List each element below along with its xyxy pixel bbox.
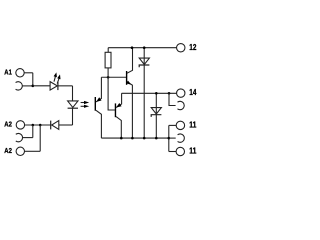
wire fan to 11a — [169, 124, 176, 126]
terminal A1 clamp — [16, 82, 23, 90]
node junction dot A2b riser — [39, 124, 42, 127]
resistor R1 — [105, 52, 111, 68]
wire down to 14 clamp — [169, 93, 176, 105]
svg-text:14: 14 — [189, 88, 197, 97]
terminal A1 circle — [16, 69, 24, 77]
transistor T2 base bar — [126, 71, 128, 85]
wire fan vertical — [168, 125, 170, 151]
transistor T1 lower lead — [116, 117, 121, 139]
terminal 12 circle — [177, 44, 185, 52]
wire LED1 to corner — [58, 85, 73, 87]
wire corner down to opto LED — [72, 86, 74, 101]
wire A1 clamp to node — [22, 85, 33, 87]
wire resistor down to T1 base — [108, 68, 115, 110]
LED1 emission arrow 2 — [57, 78, 59, 84]
optocoupler light arrow 2 — [81, 105, 85, 107]
node dot resistor/base wire — [107, 76, 110, 79]
wire node to LED1 — [33, 85, 50, 87]
node dot rail/fan junction — [168, 137, 171, 140]
transistor T1 upper lead (arrow into bar) — [116, 93, 122, 107]
phototransistor Q1 base bar — [94, 97, 96, 111]
wire D1 to A2 — [25, 124, 51, 126]
svg-text:A1: A1 — [4, 68, 12, 77]
opto LED D2 — [68, 101, 78, 108]
top rail wire — [108, 47, 176, 49]
svg-text:A2: A2 — [4, 146, 12, 155]
node dot Z2 on rail — [155, 137, 158, 140]
LED1 emission arrow 1 — [54, 76, 56, 82]
node dot Z1 on rail — [143, 137, 146, 140]
svg-text:11: 11 — [189, 120, 197, 129]
wire corner down to A1 node — [32, 73, 34, 86]
node dot Z2 top — [155, 92, 158, 95]
wire A2 clamp right — [23, 137, 33, 139]
node A1 junction dot — [32, 85, 35, 88]
node dot 14 clamp branch — [168, 92, 171, 95]
node dot T2 collector on rail — [131, 46, 134, 49]
terminal 14 clamp — [177, 101, 184, 109]
wire A2b riser up — [39, 125, 41, 151]
node dot Z1 on rail — [143, 46, 146, 49]
zener diode Z1 vertical line — [143, 48, 145, 138]
node dot T2 emitter on rail — [131, 137, 134, 140]
terminal A2 clamp — [16, 133, 23, 141]
terminal A2b circle — [16, 147, 24, 155]
phototransistor upper lead (emitter, arrow into bar) — [96, 77, 101, 102]
transistor T2 collector — [127, 48, 133, 74]
node dot T1 emitter on rail — [120, 137, 123, 140]
diode D1 (reverse protection, pointing left) — [52, 121, 59, 130]
wire fan to 11 clamp — [169, 137, 176, 139]
wire opto LED down — [72, 108, 74, 125]
wire fan to 11b — [169, 151, 176, 153]
bottom rail wire (terminal 11 row) — [101, 137, 168, 139]
wire rail into resistor — [107, 48, 109, 53]
zener diode Z1 — [139, 58, 149, 64]
wire photoT emitter to T2 base — [101, 76, 126, 78]
terminal 11 clamp — [178, 134, 185, 142]
optocoupler light arrow 1 — [81, 102, 85, 104]
output wire (terminal 14 row) — [122, 92, 177, 94]
svg-text:12: 12 — [189, 43, 197, 52]
wire clamp riser up — [32, 125, 34, 138]
svg-text:A2: A2 — [4, 120, 12, 129]
transistor T2 emitter with arrow — [127, 82, 132, 138]
phototransistor lower lead — [96, 110, 101, 138]
wire A2b right — [25, 150, 41, 152]
wire bottom to D1 — [59, 124, 73, 126]
terminal 11a circle — [176, 121, 184, 129]
wire A1 circle to corner — [24, 72, 33, 74]
terminal 11b circle — [176, 147, 184, 155]
node junction dot A2/clamp — [32, 124, 35, 127]
terminal 14 circle — [177, 89, 185, 97]
transistor T1 base bar — [114, 103, 116, 117]
zener diode Z2 vertical line — [155, 93, 157, 138]
terminal A2 circle — [16, 121, 24, 129]
zener diode Z2 — [151, 108, 161, 114]
svg-text:11: 11 — [189, 146, 197, 155]
LED LED1 (indicator) — [50, 82, 57, 91]
